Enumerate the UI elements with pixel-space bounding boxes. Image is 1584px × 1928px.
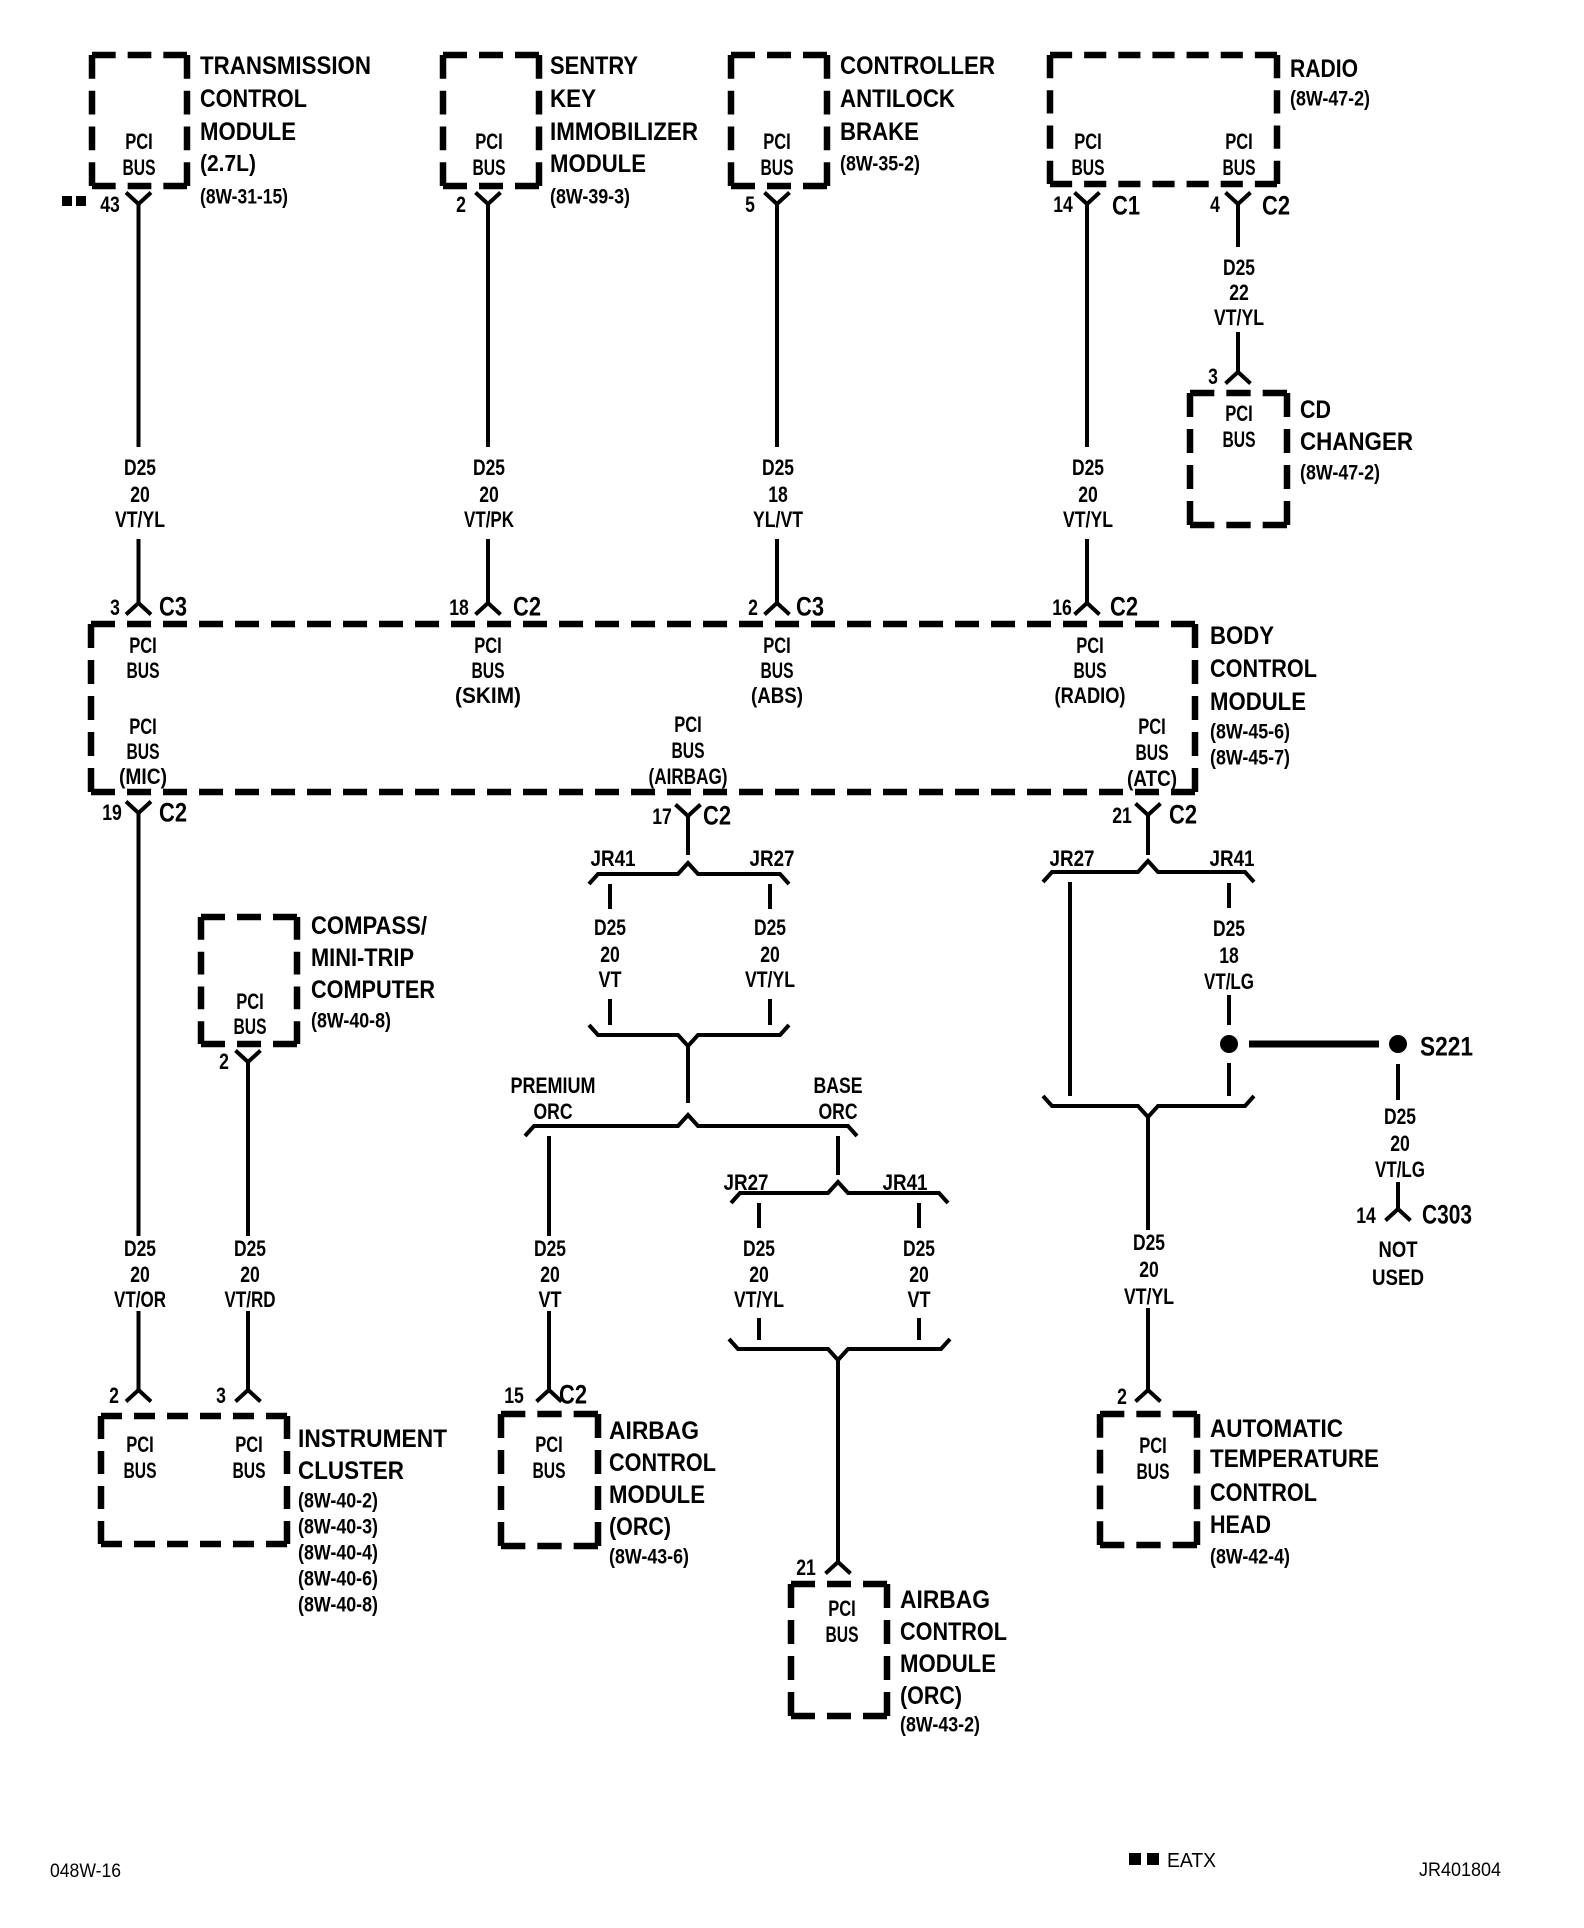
svg-text:20: 20 [130, 482, 150, 507]
svg-text:D25: D25 [903, 1236, 935, 1261]
svg-text:VT/RD: VT/RD [225, 1287, 276, 1312]
svg-text:VT/PK: VT/PK [464, 507, 514, 532]
svg-text:PCI: PCI [763, 633, 791, 658]
svg-text:BUS: BUS [761, 658, 794, 683]
svg-text:21: 21 [1112, 803, 1132, 828]
svg-text:(8W-45-6): (8W-45-6) [1210, 721, 1290, 744]
svg-text:21: 21 [796, 1555, 816, 1580]
svg-text:20: 20 [1390, 1131, 1410, 1156]
svg-text:BUS: BUS [473, 155, 506, 180]
svg-text:20: 20 [130, 1262, 150, 1287]
svg-text:VT: VT [908, 1287, 931, 1312]
svg-text:(SKIM): (SKIM) [455, 683, 521, 708]
svg-text:D25: D25 [1223, 255, 1255, 280]
svg-text:18: 18 [449, 595, 469, 620]
svg-text:C3: C3 [159, 592, 187, 622]
svg-text:BUS: BUS [533, 1458, 566, 1483]
svg-text:(8W-40-6): (8W-40-6) [298, 1568, 378, 1591]
svg-text:VT: VT [599, 967, 622, 992]
svg-text:ANTILOCK: ANTILOCK [840, 85, 955, 113]
svg-text:PCI: PCI [474, 633, 502, 658]
svg-text:18: 18 [1219, 943, 1239, 968]
svg-text:MODULE: MODULE [900, 1650, 996, 1678]
svg-text:BUS: BUS [234, 1014, 267, 1039]
svg-text:C2: C2 [1169, 800, 1197, 830]
svg-text:PCI: PCI [475, 129, 503, 154]
svg-text:PCI: PCI [129, 633, 157, 658]
svg-text:PCI: PCI [129, 714, 157, 739]
svg-text:USED: USED [1372, 1265, 1424, 1290]
svg-text:CONTROL: CONTROL [1210, 1479, 1317, 1507]
svg-text:(8W-45-7): (8W-45-7) [1210, 747, 1290, 770]
svg-text:IMMOBILIZER: IMMOBILIZER [550, 118, 698, 146]
svg-text:D25: D25 [1072, 455, 1104, 480]
svg-text:PCI: PCI [1139, 1433, 1167, 1458]
svg-text:(8W-40-8): (8W-40-8) [298, 1594, 378, 1617]
svg-text:COMPUTER: COMPUTER [311, 976, 435, 1004]
svg-text:C1: C1 [1112, 191, 1140, 221]
svg-text:RADIO: RADIO [1290, 55, 1358, 83]
svg-text:14: 14 [1356, 1203, 1376, 1228]
svg-text:C2: C2 [1262, 191, 1290, 221]
svg-text:(AIRBAG): (AIRBAG) [649, 764, 728, 789]
svg-text:BUS: BUS [1223, 427, 1256, 452]
svg-text:C2: C2 [513, 592, 541, 622]
svg-text:(8W-43-6): (8W-43-6) [609, 1546, 689, 1569]
svg-text:PCI: PCI [535, 1432, 563, 1457]
svg-text:BUS: BUS [127, 658, 160, 683]
svg-text:YL/VT: YL/VT [753, 507, 803, 532]
svg-text:(8W-40-3): (8W-40-3) [298, 1516, 378, 1539]
svg-text:(8W-39-3): (8W-39-3) [550, 186, 630, 209]
svg-text:20: 20 [1078, 482, 1098, 507]
svg-text:D25: D25 [594, 915, 626, 940]
svg-text:PCI: PCI [125, 129, 153, 154]
svg-text:PCI: PCI [763, 129, 791, 154]
svg-text:(ATC): (ATC) [1127, 766, 1177, 791]
svg-text:BUS: BUS [1223, 155, 1256, 180]
svg-text:INSTRUMENT: INSTRUMENT [298, 1425, 447, 1453]
svg-text:JR27: JR27 [1050, 846, 1095, 871]
svg-text:VT/YL: VT/YL [1063, 507, 1113, 532]
svg-text:BUS: BUS [123, 155, 156, 180]
svg-text:TRANSMISSION: TRANSMISSION [200, 52, 371, 80]
svg-text:(ABS): (ABS) [751, 683, 803, 708]
svg-text:ORC: ORC [534, 1099, 573, 1124]
svg-text:C3: C3 [796, 592, 824, 622]
svg-text:BUS: BUS [672, 738, 705, 763]
svg-text:20: 20 [909, 1262, 929, 1287]
svg-text:20: 20 [760, 942, 780, 967]
svg-text:VT: VT [539, 1287, 562, 1312]
svg-text:VT/YL: VT/YL [1124, 1284, 1174, 1309]
svg-text:(8W-35-2): (8W-35-2) [840, 153, 920, 176]
svg-text:JR401804: JR401804 [1419, 1860, 1501, 1881]
svg-text:EATX: EATX [1167, 1850, 1216, 1872]
svg-text:CONTROL: CONTROL [1210, 655, 1317, 683]
svg-text:MINI-TRIP: MINI-TRIP [311, 944, 414, 972]
svg-text:20: 20 [479, 482, 499, 507]
svg-text:2: 2 [1117, 1384, 1127, 1409]
svg-text:VT/YL: VT/YL [115, 507, 165, 532]
svg-text:PCI: PCI [1076, 633, 1104, 658]
svg-text:(RADIO): (RADIO) [1055, 683, 1126, 708]
svg-text:43: 43 [100, 192, 120, 217]
svg-text:D25: D25 [1384, 1104, 1416, 1129]
svg-text:D25: D25 [1133, 1230, 1165, 1255]
svg-text:PCI: PCI [828, 1596, 856, 1621]
svg-text:CONTROLLER: CONTROLLER [840, 52, 995, 80]
svg-text:VT/YL: VT/YL [734, 1287, 784, 1312]
svg-text:2: 2 [456, 192, 466, 217]
svg-text:(8W-40-8): (8W-40-8) [311, 1010, 391, 1033]
svg-text:C303: C303 [1422, 1200, 1472, 1230]
svg-text:BUS: BUS [1074, 658, 1107, 683]
svg-text:C2: C2 [159, 798, 187, 828]
svg-text:(8W-47-2): (8W-47-2) [1290, 88, 1370, 111]
svg-text:JR41: JR41 [1210, 846, 1255, 871]
svg-text:AUTOMATIC: AUTOMATIC [1210, 1415, 1343, 1443]
svg-text:D25: D25 [743, 1236, 775, 1261]
svg-text:14: 14 [1053, 192, 1073, 217]
svg-text:BUS: BUS [1137, 1459, 1170, 1484]
svg-text:(MIC): (MIC) [119, 764, 167, 789]
svg-text:5: 5 [745, 192, 755, 217]
svg-text:MODULE: MODULE [550, 150, 646, 178]
svg-text:C2: C2 [559, 1380, 587, 1410]
svg-text:BUS: BUS [1136, 740, 1169, 765]
svg-text:C2: C2 [703, 801, 731, 831]
svg-text:JR27: JR27 [750, 846, 795, 871]
svg-text:CHANGER: CHANGER [1300, 428, 1413, 456]
svg-text:PCI: PCI [126, 1432, 154, 1457]
svg-text:VT/OR: VT/OR [114, 1287, 166, 1312]
svg-text:BUS: BUS [472, 658, 505, 683]
svg-text:CLUSTER: CLUSTER [298, 1457, 404, 1485]
svg-text:(8W-42-4): (8W-42-4) [1210, 1546, 1290, 1569]
svg-text:D25: D25 [234, 1236, 266, 1261]
svg-text:D25: D25 [124, 1236, 156, 1261]
svg-text:CONTROL: CONTROL [200, 85, 307, 113]
svg-text:AIRBAG: AIRBAG [900, 1586, 990, 1614]
svg-text:D25: D25 [754, 915, 786, 940]
svg-text:20: 20 [1139, 1257, 1159, 1282]
svg-text:(ORC): (ORC) [900, 1682, 962, 1710]
svg-text:(8W-31-15): (8W-31-15) [200, 186, 288, 209]
svg-text:MODULE: MODULE [1210, 688, 1306, 716]
svg-text:2: 2 [748, 595, 758, 620]
svg-text:3: 3 [1208, 364, 1218, 389]
svg-text:PCI: PCI [236, 989, 264, 1014]
svg-text:PREMIUM: PREMIUM [511, 1073, 596, 1098]
svg-text:(8W-40-2): (8W-40-2) [298, 1490, 378, 1513]
svg-text:BUS: BUS [761, 155, 794, 180]
svg-text:COMPASS/: COMPASS/ [311, 912, 427, 940]
svg-text:2: 2 [219, 1049, 229, 1074]
svg-text:JR41: JR41 [591, 846, 636, 871]
svg-text:VT/LG: VT/LG [1204, 969, 1254, 994]
svg-text:3: 3 [110, 595, 120, 620]
svg-text:BUS: BUS [124, 1458, 157, 1483]
svg-text:BUS: BUS [233, 1458, 266, 1483]
svg-text:VT/YL: VT/YL [1214, 305, 1264, 330]
svg-text:17: 17 [652, 804, 672, 829]
svg-text:PCI: PCI [235, 1432, 263, 1457]
svg-text:BUS: BUS [127, 739, 160, 764]
svg-text:3: 3 [216, 1383, 226, 1408]
svg-text:(ORC): (ORC) [609, 1513, 671, 1541]
svg-text:20: 20 [540, 1262, 560, 1287]
svg-text:18: 18 [768, 482, 788, 507]
svg-text:AIRBAG: AIRBAG [609, 1417, 699, 1445]
svg-text:TEMPERATURE: TEMPERATURE [1210, 1445, 1379, 1473]
svg-text:BODY: BODY [1210, 622, 1274, 650]
svg-text:C2: C2 [1110, 592, 1138, 622]
svg-text:BUS: BUS [826, 1622, 859, 1647]
svg-text:4: 4 [1210, 192, 1220, 217]
svg-text:HEAD: HEAD [1210, 1511, 1271, 1539]
svg-text:NOT: NOT [1379, 1237, 1418, 1262]
svg-text:MODULE: MODULE [609, 1481, 705, 1509]
svg-text:2: 2 [109, 1383, 119, 1408]
svg-text:(8W-47-2): (8W-47-2) [1300, 462, 1380, 485]
svg-text:22: 22 [1229, 280, 1249, 305]
svg-text:D25: D25 [473, 455, 505, 480]
svg-text:(8W-43-2): (8W-43-2) [900, 1714, 980, 1737]
svg-text:20: 20 [240, 1262, 260, 1287]
svg-text:15: 15 [504, 1383, 524, 1408]
svg-text:BUS: BUS [1072, 155, 1105, 180]
svg-text:D25: D25 [124, 455, 156, 480]
svg-text:MODULE: MODULE [200, 118, 296, 146]
svg-text:VT/YL: VT/YL [745, 967, 795, 992]
svg-text:PCI: PCI [1138, 714, 1166, 739]
svg-text:BRAKE: BRAKE [840, 118, 919, 146]
svg-text:(2.7L): (2.7L) [200, 150, 256, 176]
svg-text:CONTROL: CONTROL [609, 1449, 716, 1477]
svg-text:ORC: ORC [819, 1099, 858, 1124]
svg-text:PCI: PCI [1225, 129, 1253, 154]
svg-text:PCI: PCI [1074, 129, 1102, 154]
svg-text:VT/LG: VT/LG [1375, 1157, 1425, 1182]
svg-text:D25: D25 [762, 455, 794, 480]
svg-text:20: 20 [600, 942, 620, 967]
svg-text:SENTRY: SENTRY [550, 52, 638, 80]
svg-text:16: 16 [1052, 595, 1072, 620]
svg-text:S221: S221 [1420, 1032, 1473, 1062]
svg-text:19: 19 [102, 800, 122, 825]
svg-text:(8W-40-4): (8W-40-4) [298, 1542, 378, 1565]
svg-text:CONTROL: CONTROL [900, 1618, 1007, 1646]
svg-text:BASE: BASE [814, 1073, 863, 1098]
svg-text:20: 20 [749, 1262, 769, 1287]
svg-text:PCI: PCI [1225, 401, 1253, 426]
svg-text:PCI: PCI [674, 712, 702, 737]
svg-text:048W-16: 048W-16 [50, 1861, 121, 1882]
svg-text:CD: CD [1300, 396, 1331, 424]
svg-text:KEY: KEY [550, 85, 596, 113]
svg-text:D25: D25 [534, 1236, 566, 1261]
svg-text:D25: D25 [1213, 916, 1245, 941]
